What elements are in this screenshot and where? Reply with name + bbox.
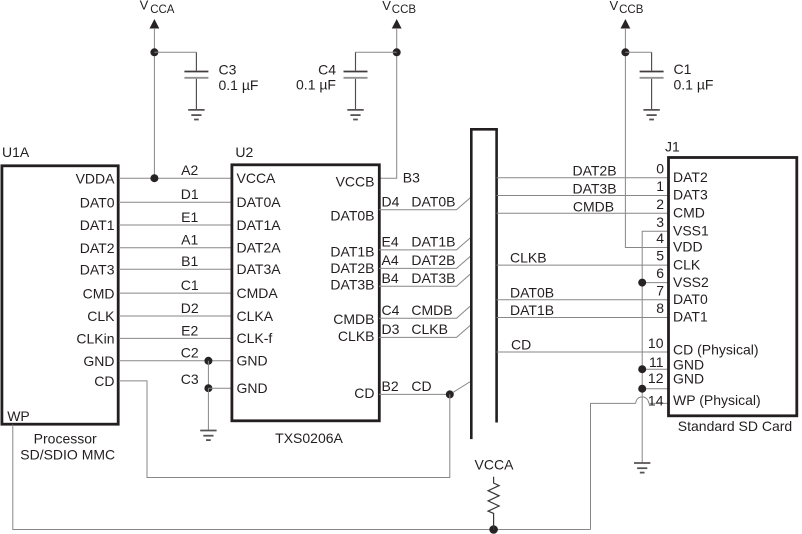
svg-text:4: 4 (656, 230, 664, 246)
svg-text:V: V (140, 0, 149, 13)
svg-text:VCCA: VCCA (475, 457, 515, 473)
wire DAT2B net to J1 pin 0 (497, 177, 668, 179)
svg-text:VCCB: VCCB (336, 173, 375, 189)
pin label D3 CLKB (382, 321, 448, 337)
svg-text:C4: C4 (382, 302, 400, 318)
svg-text:DAT1: DAT1 (673, 309, 708, 325)
node VDDA junction (150, 174, 158, 182)
svg-text:CMDB: CMDB (411, 302, 452, 318)
svg-text:CCB: CCB (392, 4, 417, 16)
wire to U2 GND (pin C3) (208, 387, 232, 389)
svg-text:V: V (382, 0, 391, 13)
svg-text:12: 12 (648, 370, 664, 386)
ground under J1 (634, 463, 650, 473)
wire J1 pin 3 VSS1 (642, 231, 668, 463)
svg-text:B4: B4 (382, 270, 399, 286)
svg-text:6: 6 (656, 265, 664, 281)
wire DAT2 to DAT2A (pin A1) (119, 247, 232, 249)
svg-text:CMDB: CMDB (573, 198, 614, 214)
svg-text:CD: CD (94, 373, 114, 389)
svg-text:CMDB: CMDB (333, 311, 374, 327)
svg-text:VSS1: VSS1 (673, 222, 709, 238)
wire CLKB net to J1 pin 5 (497, 264, 668, 266)
svg-text:TXS0206A: TXS0206A (275, 430, 343, 446)
svg-text:DAT3: DAT3 (673, 187, 708, 203)
wire CD net to J1 pin 10 (497, 351, 668, 353)
svg-text:DAT1B: DAT1B (510, 302, 554, 318)
svg-text:DAT1A: DAT1A (237, 217, 282, 233)
wire U2 DAT0B to connector (pin D4) (379, 197, 471, 210)
node CD junction (446, 390, 454, 398)
node VCCA cap tap (150, 48, 158, 56)
svg-text:DAT3B: DAT3B (330, 277, 374, 293)
svg-text:CMDA: CMDA (237, 285, 279, 301)
SD card connector J1 (665, 139, 797, 416)
capacitor C4 (296, 52, 367, 109)
wire U2 DAT1B to connector (pin E4) (379, 237, 471, 250)
svg-text:E1: E1 (181, 209, 198, 225)
wire DAT1B net to J1 pin 8 (497, 317, 668, 319)
wire U2 CLKB to connector (pin D3) (379, 325, 471, 338)
svg-text:VCCA: VCCA (237, 170, 277, 186)
U2 left pin labels (237, 170, 282, 396)
svg-text:GND: GND (673, 371, 704, 387)
pin label E4 DAT1B (382, 234, 456, 250)
svg-text:VSS2: VSS2 (673, 274, 709, 290)
pin label C4 CMDB (382, 302, 453, 318)
svg-text:A4: A4 (382, 252, 399, 268)
wire J1 pin 12 GND (642, 388, 668, 390)
wire VCCB to C1 (625, 51, 651, 53)
wire VCCA to C3 (154, 51, 196, 53)
svg-text:CLKA: CLKA (237, 308, 274, 324)
wire GND stem down (207, 388, 209, 430)
ground under U2 GND pins (200, 431, 216, 441)
capacitor C3 (184, 52, 258, 109)
node GND junction pin 11 (638, 365, 646, 373)
wire GND junction vertical (207, 361, 209, 388)
svg-text:0.1 µF: 0.1 µF (219, 77, 259, 93)
capacitor C1 (640, 52, 714, 109)
svg-text:CLK: CLK (673, 256, 701, 272)
node GND junction C2 (204, 357, 212, 365)
svg-text:DAT0A: DAT0A (237, 194, 282, 210)
svg-text:U2: U2 (235, 144, 253, 160)
svg-text:0: 0 (656, 160, 664, 176)
svg-text:A1: A1 (181, 232, 198, 248)
ground under C4 (347, 110, 363, 120)
resistor R1 pull-up (488, 477, 499, 530)
svg-text:B1: B1 (181, 253, 198, 269)
svg-text:D4: D4 (382, 193, 400, 209)
pin label D4 DAT0B (382, 193, 456, 209)
svg-text:CD: CD (411, 378, 431, 394)
svg-text:D3: D3 (382, 321, 400, 337)
svg-text:A2: A2 (181, 162, 198, 178)
node VSS2 junction (638, 279, 646, 287)
wire J1 pin 6 VSS2 (642, 282, 668, 284)
svg-text:DAT2B: DAT2B (330, 260, 374, 276)
svg-text:C4: C4 (318, 62, 336, 78)
svg-text:VDDA: VDDA (76, 170, 116, 186)
svg-text:DAT0B: DAT0B (411, 193, 455, 209)
svg-text:J1: J1 (665, 139, 680, 155)
svg-text:DAT2B: DAT2B (572, 163, 616, 179)
power symbol VCCB (top middle) (382, 0, 416, 29)
svg-text:DAT1B: DAT1B (330, 244, 374, 260)
wire CD down from junction to U1A CD (119, 381, 450, 478)
wire C4 to VCCB (356, 51, 397, 53)
wire CMD to CMDA (pin C1) (119, 292, 232, 294)
svg-text:CCA: CCA (150, 4, 175, 16)
wire J1 pin 14 WP with hop (591, 397, 669, 530)
svg-text:DAT2: DAT2 (673, 169, 708, 185)
svg-text:7: 7 (656, 282, 664, 298)
wire DAT0 to DAT0A (pin D1) (119, 201, 232, 203)
wire CLK to CLKA (pin D2) (119, 315, 232, 317)
processor U1A (2, 144, 118, 424)
svg-text:CLKB: CLKB (510, 250, 547, 266)
svg-text:Standard SD Card: Standard SD Card (678, 418, 792, 434)
svg-text:GND: GND (83, 353, 114, 369)
svg-text:GND: GND (237, 353, 268, 369)
svg-text:CMD: CMD (83, 285, 115, 301)
svg-text:DAT2: DAT2 (80, 240, 115, 256)
svg-text:0.1 µF: 0.1 µF (296, 77, 336, 93)
U1A caption (20, 431, 115, 463)
svg-text:DAT3: DAT3 (80, 262, 115, 278)
svg-text:DAT3A: DAT3A (237, 261, 282, 277)
svg-text:DAT1: DAT1 (80, 217, 115, 233)
svg-text:C3: C3 (181, 371, 199, 387)
svg-text:CCB: CCB (619, 4, 644, 16)
pin label B4 DAT3B (382, 270, 456, 286)
svg-text:U1A: U1A (2, 144, 30, 160)
svg-text:3: 3 (656, 214, 664, 230)
svg-text:DAT0B: DAT0B (330, 208, 374, 224)
svg-text:SD/SDIO MMC: SD/SDIO MMC (20, 446, 115, 462)
svg-text:1: 1 (656, 178, 664, 194)
wire DAT3B net to J1 pin 1 (497, 195, 668, 197)
wire DAT0B net to J1 pin 7 (497, 299, 668, 301)
ground under C3 (188, 110, 204, 120)
svg-text:5: 5 (656, 248, 664, 264)
node resistor junction (489, 525, 498, 534)
wire VCCB rail to J1 VDD pin 4 (625, 28, 668, 248)
svg-text:C1: C1 (181, 277, 199, 293)
svg-text:E4: E4 (382, 234, 399, 250)
svg-text:DAT0: DAT0 (80, 195, 115, 211)
svg-text:10: 10 (648, 335, 664, 351)
wire U2 CD to connector (pin B2) (379, 381, 471, 394)
svg-text:CLKB: CLKB (411, 321, 448, 337)
node GND junction C3 (204, 384, 212, 392)
U1A pin labels (7, 170, 115, 424)
wire VDDA to VCCA (pin A2) (119, 177, 232, 179)
pin label B2 CD (382, 378, 432, 394)
node VCCB cap tap right (621, 48, 629, 56)
wire CMDB net to J1 pin 2 (497, 212, 668, 214)
node GND junction pin 12 (638, 385, 646, 393)
svg-text:D1: D1 (181, 186, 199, 202)
svg-text:CLK: CLK (87, 308, 115, 324)
svg-text:WP (Physical): WP (Physical) (673, 392, 761, 408)
svg-text:DAT1B: DAT1B (411, 234, 455, 250)
wire U2 DAT3B to connector (pin B4) (379, 273, 471, 286)
connector card slot (470, 129, 498, 439)
node VCCB cap tap (393, 48, 401, 56)
power symbol VCCA (top left) (140, 0, 175, 29)
pin label A4 DAT2B (382, 252, 456, 268)
svg-text:CLK-f: CLK-f (237, 330, 273, 346)
svg-text:DAT2B: DAT2B (411, 252, 455, 268)
svg-text:DAT0B: DAT0B (510, 284, 554, 300)
svg-text:CLKB: CLKB (338, 328, 375, 344)
svg-text:C3: C3 (219, 62, 237, 78)
svg-text:E2: E2 (181, 322, 198, 338)
svg-text:C2: C2 (181, 345, 199, 361)
wire WP from U1A bottom (13, 425, 591, 530)
U2 right pin labels (330, 173, 374, 401)
svg-text:VDD: VDD (673, 239, 703, 255)
svg-text:14: 14 (648, 392, 664, 408)
svg-text:CD (Physical): CD (Physical) (673, 342, 759, 358)
power symbol VCCB (top right) (610, 0, 644, 29)
wire CLKin to CLK-f (pin E2) (119, 337, 232, 339)
svg-text:0.1 µF: 0.1 µF (674, 77, 714, 93)
svg-text:WP: WP (7, 408, 30, 424)
svg-text:8: 8 (656, 300, 664, 316)
svg-text:CLKin: CLKin (76, 331, 114, 347)
svg-text:2: 2 (656, 196, 664, 212)
svg-text:11: 11 (649, 354, 664, 370)
wire VCCB rail vertical to U2 pin B3 (380, 28, 397, 178)
svg-text:C1: C1 (674, 61, 692, 77)
svg-text:B3: B3 (403, 170, 420, 186)
wire DAT3 to DAT3A (pin B1) (119, 268, 232, 270)
wire U2 CMDB to connector (pin C4) (379, 305, 471, 318)
J1 pin labels (673, 169, 761, 408)
svg-text:DAT2A: DAT2A (237, 240, 282, 256)
wire U2 DAT2B to connector (pin A4) (379, 256, 471, 269)
wire GND to GND (pin C2) (119, 360, 232, 362)
J1 pin numbers (648, 160, 664, 408)
svg-text:CD: CD (511, 337, 531, 353)
svg-text:CD: CD (354, 385, 374, 401)
ground under C1 (643, 110, 659, 120)
svg-text:B2: B2 (382, 378, 399, 394)
svg-text:CMD: CMD (673, 205, 705, 221)
svg-text:DAT3B: DAT3B (411, 270, 455, 286)
wire DAT1 to DAT1A (pin E1) (119, 224, 232, 226)
svg-text:D2: D2 (181, 300, 199, 316)
svg-text:V: V (610, 0, 619, 13)
wire VCCA rail vertical (153, 28, 155, 178)
svg-text:DAT3B: DAT3B (572, 181, 616, 197)
svg-text:Processor: Processor (34, 431, 97, 447)
svg-text:GND: GND (237, 380, 268, 396)
svg-text:DAT0: DAT0 (673, 291, 708, 307)
level shifter U2 TXS0206A (232, 144, 379, 421)
wire J1 pin 11 GND (642, 368, 668, 370)
